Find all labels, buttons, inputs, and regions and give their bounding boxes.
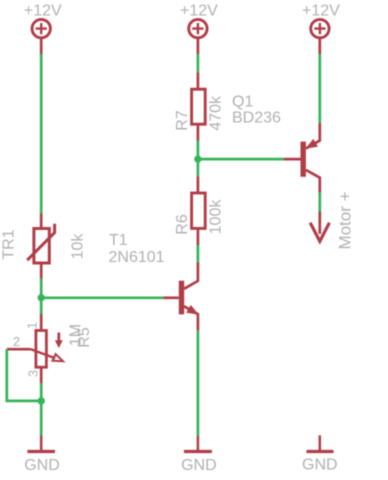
transistor Q1 base bar [301,142,306,177]
junction node B [38,397,45,404]
ground GND (left) [27,436,55,452]
supply symbol +12V P2 (middle) [189,19,207,37]
pin T1 emitter with arrow [184,306,198,331]
wire R6 to T1 collector [197,245,200,263]
potentiometer R5 adjust arrow [56,333,63,348]
pin R5 1 [40,314,43,331]
pin TR1 bottom [40,263,43,279]
svg-text:1: 1 [25,322,40,329]
svg-text:R6: R6 [174,214,191,235]
wire +12V to R7 [197,54,200,72]
svg-text:2N6101: 2N6101 [109,249,165,266]
pin T1 collector [184,263,198,289]
svg-text:+12V: +12V [302,2,340,19]
svg-text:470k: 470k [207,95,224,131]
wire stub to motor arrow [318,212,321,234]
transistor T1 base bar [179,281,184,315]
junction node A [38,294,45,301]
wire +12V to Q1 emitter [318,54,321,123]
ground GND (middle) [184,436,212,452]
pin R5 3 [40,367,43,383]
potentiometer R5 wiper [31,349,63,361]
svg-text:R7: R7 [174,110,191,131]
wire TR1 to node A [40,279,43,298]
pin R6 top [197,176,200,193]
pin TR1 top [40,214,43,229]
svg-text:Q1: Q1 [232,94,253,111]
pin R5 2 stub [7,348,31,351]
motor output arrow [310,223,329,242]
pin stub from +12V (middle) [197,38,200,54]
wire wiper to node B [7,349,38,401]
pin Q1 emitter with arrow [306,123,320,148]
svg-text:+12V: +12V [180,2,218,19]
pin T1 base [163,296,179,299]
wire node C to R6 [197,159,200,176]
wire node C to Q1 base [198,158,284,161]
svg-text:GND: GND [24,457,60,474]
wire node A to T1 base [45,296,164,299]
wire node A to R5 [40,298,43,314]
wire R5 to node B [40,383,43,401]
svg-text:2: 2 [13,334,20,349]
supply symbol +12V P3 (right) [311,19,329,37]
svg-text:3: 3 [26,370,41,377]
svg-text:+12V: +12V [24,2,62,19]
pin R6 bottom [197,228,200,245]
svg-text:T1: T1 [109,232,128,249]
svg-text:GND: GND [302,456,338,473]
svg-text:GND: GND [181,457,217,474]
thermistor TR1 body [27,224,54,263]
wire T1 emitter to GND [197,331,200,436]
resistor R6 body [192,193,206,228]
wire node B to GND [40,401,43,436]
svg-text:100k: 100k [207,199,224,235]
resistor R7 body [192,89,206,124]
svg-text:TR1: TR1 [0,229,17,259]
svg-text:10k: 10k [70,233,87,260]
pin R7 bottom [197,124,200,140]
svg-text:BD236: BD236 [232,110,281,127]
wire R7 to node C [197,141,200,160]
pin stub from +12V (left) [40,38,43,54]
wire +12V to TR1 [40,54,43,214]
svg-text:Motor +: Motor + [335,191,354,249]
pin R7 top [197,72,200,89]
pin stub from +12V (right) [318,38,321,54]
pin Q1 collector [306,170,320,193]
supply symbol +12V P1 (left) [32,19,50,37]
ground GND (right) [307,435,334,451]
potentiometer R5 body [36,331,47,368]
junction node C [194,155,201,162]
svg-text:R5: R5 [76,327,93,348]
wire Q1 collector to Motor [318,193,321,212]
pin Q1 base [284,158,301,161]
